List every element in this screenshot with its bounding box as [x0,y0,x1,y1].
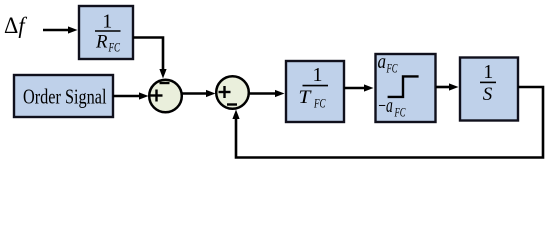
svg-text:FC: FC [386,60,398,75]
svg-text:Δf: Δf [4,13,28,39]
block 1/T_FC [286,61,344,122]
wire summing junction 1 to summing junction 2 [182,90,216,97]
svg-text:−a: −a [378,95,393,117]
svg-text:R: R [95,31,108,52]
summing junction 2 [216,76,249,109]
block 1/S [460,58,518,121]
limiter block a_FC / -a_FC [376,51,436,122]
svg-text:1: 1 [313,64,323,86]
summing junction 1 [149,80,182,113]
wire R block to summing junction 1 [133,38,167,79]
svg-text:Order Signal: Order Signal [23,85,107,109]
wire T block to limiter [344,84,374,91]
svg-text:FC: FC [108,40,120,55]
feedback wire from S block output to summing junction 2 [232,87,543,158]
wire limiter to S block [436,83,459,90]
svg-text:1: 1 [483,61,493,83]
wire Order Signal to summing junction 1 [113,92,149,99]
svg-text:FC: FC [394,105,406,120]
svg-text:T: T [298,87,312,108]
svg-text:FC: FC [313,96,325,111]
svg-text:1: 1 [102,10,112,32]
block Order Signal [14,75,113,117]
wire input arrow to R block [43,26,78,33]
block 1/R_FC [79,6,133,59]
svg-text:S: S [483,84,493,105]
wire summing junction 2 to T block [249,90,285,97]
svg-text:a: a [378,51,387,73]
